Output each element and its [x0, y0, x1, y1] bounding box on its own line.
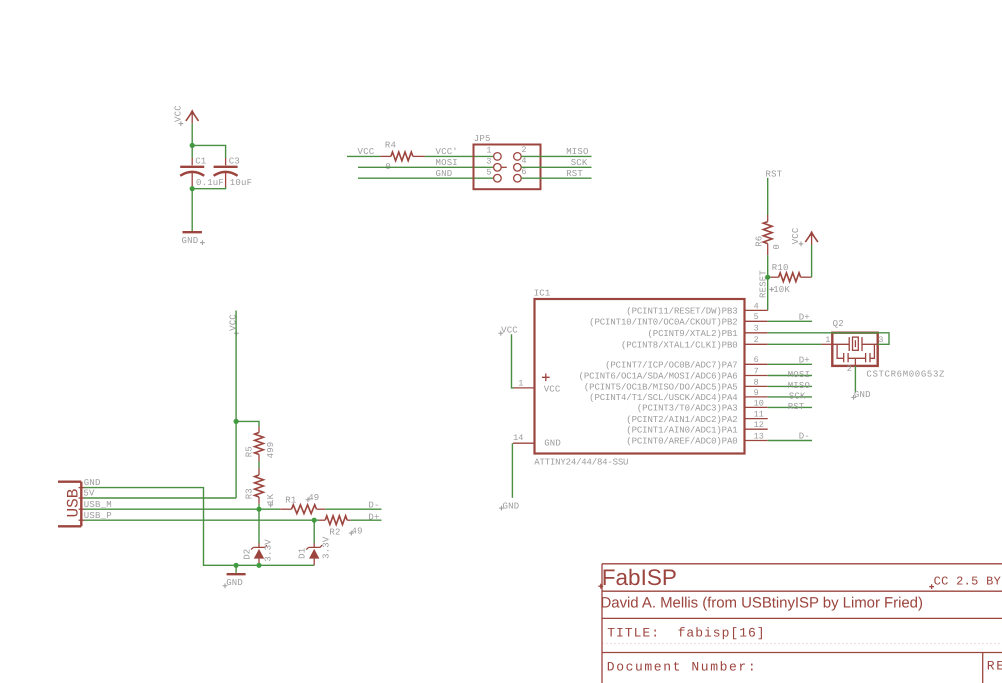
wire R6 to RESET junction: [767, 255, 769, 277]
JP5 pad circle pin1: [494, 153, 502, 161]
svg-text:5: 5: [754, 312, 759, 322]
svg-text:D1: D1: [297, 548, 307, 559]
wire C1 top lead (green part): [191, 145, 193, 158]
svg-text:1: 1: [486, 146, 491, 156]
wire SCK (pin9): [768, 396, 812, 398]
JP5 pin3 stub: [501, 166, 507, 168]
pin stub 3 (PB1): [745, 332, 768, 334]
pin stub 4 (PB3): [745, 309, 768, 311]
supply symbol VCC (at R10): [805, 231, 818, 245]
svg-text:SCK: SCK: [571, 158, 588, 168]
origin cross 1K: [268, 503, 273, 508]
wire MISO (pin8): [768, 385, 812, 387]
supply symbol VCC (top left): [186, 109, 199, 123]
wire R10 up to VCC arrow: [811, 244, 813, 277]
wire USB_P junction down to D1: [313, 520, 315, 543]
svg-text:0: 0: [772, 244, 782, 250]
svg-text:0.1uF: 0.1uF: [196, 178, 224, 188]
svg-text:TITLE: fabisp[16]: TITLE: fabisp[16]: [607, 626, 765, 641]
capacitor C1: [180, 158, 204, 187]
Q2 load capacitors to pin2: [837, 344, 874, 366]
pin stub 2 (PB0): [745, 343, 768, 345]
junction node ground rail / D2: [256, 563, 261, 568]
junction node RESET: [765, 275, 770, 280]
origin cross VCC (at R10): [799, 242, 804, 247]
svg-text:D-: D-: [368, 500, 379, 510]
svg-text:R4: R4: [385, 141, 396, 151]
wire GND stub to JP5 pin5: [358, 177, 494, 179]
svg-text:(PCINT1/AIN0/ADC1)PA1: (PCINT1/AIN0/ADC1)PA1: [626, 425, 737, 435]
svg-text:JP5: JP5: [474, 134, 491, 144]
wire VCC to junction: [191, 123, 193, 145]
svg-text:49: 49: [352, 527, 363, 537]
svg-text:MOSI: MOSI: [788, 370, 810, 380]
svg-text:ATTINY24/44/84-SSU: ATTINY24/44/84-SSU: [534, 457, 628, 467]
svg-text:GND: GND: [182, 236, 199, 246]
wire R4 to JP5 pin1: [425, 155, 494, 157]
wire USB GND to ground rail: [84, 488, 314, 566]
svg-text:R10: R10: [772, 263, 789, 273]
svg-text:GND: GND: [854, 390, 871, 400]
svg-text:RST: RST: [566, 169, 583, 179]
ground symbol (top left): [183, 231, 202, 233]
resistor R6: [763, 215, 772, 255]
svg-text:SCK: SCK: [789, 391, 806, 401]
ground symbol (USB rail): [227, 573, 246, 575]
Q2 pin1 stub: [822, 343, 833, 345]
svg-text:12: 12: [754, 420, 764, 430]
JP5 pad circle pin2: [514, 153, 522, 161]
svg-text:D2: D2: [243, 549, 253, 560]
junction node USB_P/D1: [312, 518, 317, 523]
svg-text:10K: 10K: [773, 285, 790, 295]
pin stub 12 (PA1): [745, 428, 768, 430]
svg-text:(PCINT6/OC1A/SDA/MOSI/ADC6)PA6: (PCINT6/OC1A/SDA/MOSI/ADC6)PA6: [579, 372, 738, 382]
Q2 crystal element: [832, 337, 877, 351]
svg-text:VCC: VCC: [544, 384, 561, 394]
svg-text:VCC: VCC: [501, 326, 518, 336]
svg-text:USB_P: USB_P: [84, 511, 112, 521]
svg-text:13: 13: [754, 431, 764, 441]
svg-text:RST: RST: [788, 402, 805, 412]
svg-text:2: 2: [521, 145, 526, 155]
wire top tie to C3 branch: [192, 145, 225, 158]
wire USB_M row: [84, 508, 280, 510]
origin cross CC 2.5 BY: [929, 584, 934, 589]
origin cross GND (Q2): [851, 395, 856, 400]
pin stub 14 (GND left): [513, 442, 535, 444]
svg-text:6: 6: [521, 167, 526, 177]
IC IC1 outline: [535, 299, 745, 454]
pin stub 10 (PA3): [745, 406, 768, 408]
svg-text:7: 7: [754, 366, 759, 376]
origin cross VCC (IC1 pin1): [498, 331, 503, 336]
origin cross for VCC (top left): [179, 121, 184, 126]
origin cross FabISP: [598, 584, 603, 589]
wire RESET down to IC1 pin4: [767, 277, 769, 310]
svg-text:5: 5: [486, 167, 491, 177]
svg-text:IC1: IC1: [534, 288, 551, 298]
svg-text:(PCINT5/OC1B/MISO/DO/ADC5)PA5: (PCINT5/OC1B/MISO/DO/ADC5)PA5: [584, 383, 738, 393]
svg-text:Q2: Q2: [833, 319, 844, 329]
pin stub 13 (PA0): [745, 440, 768, 442]
svg-text:David A. Mellis (from USBtinyI: David A. Mellis (from USBtinyISP by Limo…: [601, 595, 923, 612]
svg-text:GND: GND: [503, 502, 520, 512]
svg-text:1: 1: [825, 335, 830, 345]
svg-text:14: 14: [513, 433, 523, 443]
junction node C1/C3 bottom: [190, 186, 195, 191]
origin cross GND (IC1 pin14): [499, 506, 504, 511]
svg-text:4: 4: [521, 156, 526, 166]
junction node VCC/R5: [234, 419, 239, 424]
svg-text:1: 1: [518, 378, 523, 388]
svg-text:VCC: VCC: [174, 105, 184, 122]
svg-text:(PCINT10/INT0/OC0A/CKOUT)PB2: (PCINT10/INT0/OC0A/CKOUT)PB2: [589, 318, 737, 328]
svg-text:(PCINT2/AIN1/ADC2)PA2: (PCINT2/AIN1/ADC2)PA2: [626, 415, 737, 425]
wire USB_M junction down to D2: [258, 509, 260, 543]
svg-text:Document Number:: Document Number:: [607, 660, 757, 675]
origin cross 49 (R1): [306, 497, 311, 502]
wire RST (pin10): [768, 406, 812, 408]
connector USB outline: [58, 482, 81, 527]
origin cross IC1: [542, 374, 550, 382]
JP5 pad circle pin5: [494, 174, 502, 182]
wire MOSI (pin7): [768, 375, 812, 377]
svg-text:(PCINT4/T1/SCL/USCK/ADC4)PA4: (PCINT4/T1/SCL/USCK/ADC4)PA4: [589, 393, 737, 403]
wire USB 5V to VCC rail: [84, 497, 236, 499]
svg-text:5V: 5V: [83, 488, 95, 498]
wire USB_P row: [84, 519, 319, 521]
pin stub 11 (PA2): [745, 418, 768, 420]
svg-text:CC 2.5 BY: CC 2.5 BY: [934, 575, 1002, 589]
junction node VCC/C1/C3 top: [190, 143, 195, 148]
wire JP5 pin4 to SCK: [521, 166, 591, 168]
wire D- (pin13): [768, 440, 812, 442]
wire junction to R5 top: [236, 421, 259, 426]
svg-text:VCC: VCC: [791, 227, 801, 244]
USB pin stub GND: [79, 487, 85, 489]
svg-text:(PCINT0/AREF/ADC0)PA0: (PCINT0/AREF/ADC0)PA0: [626, 437, 737, 447]
wire VCC rail down to 5V row: [235, 311, 237, 499]
svg-text:49: 49: [308, 493, 319, 503]
svg-text:3.3V: 3.3V: [264, 539, 274, 562]
svg-text:R6: R6: [754, 236, 764, 247]
svg-text:D+: D+: [799, 312, 810, 322]
svg-text:(PCINT3/T0/ADC3)PA3: (PCINT3/T0/ADC3)PA3: [637, 404, 738, 414]
wire JP5 pin2 to MISO: [521, 155, 591, 157]
svg-text:3: 3: [754, 324, 759, 334]
svg-text:6: 6: [754, 355, 759, 365]
JP5 pad circle pin3: [494, 164, 502, 172]
wire pin3 to Q2 pin3: [768, 333, 889, 345]
svg-text:8: 8: [754, 377, 759, 387]
svg-text:CSTCR6M00G53Z: CSTCR6M00G53Z: [866, 369, 945, 379]
svg-text:3: 3: [486, 156, 491, 166]
wire R1 to D-: [325, 508, 381, 510]
pin stub 8 (PA5): [745, 385, 768, 387]
svg-text:VCC': VCC': [436, 147, 458, 157]
wire JP5 pin6 to RST: [521, 177, 591, 179]
wire R2 to D+: [351, 519, 382, 521]
svg-text:10uF: 10uF: [230, 178, 252, 188]
svg-text:C3: C3: [229, 157, 240, 167]
svg-text:(PCINT8/XTAL1/CLKI)PB0: (PCINT8/XTAL1/CLKI)PB0: [621, 341, 738, 351]
svg-text:(PCINT7/ICP/OC0B/ADC7)PA7: (PCINT7/ICP/OC0B/ADC7)PA7: [605, 361, 738, 371]
USB pin stub USB_M: [79, 508, 85, 510]
svg-text:R1: R1: [285, 496, 296, 506]
svg-text:GND: GND: [544, 439, 561, 449]
wire D+ (pin5): [768, 320, 812, 322]
svg-text:VCC: VCC: [358, 147, 375, 157]
USB pin stub 5V: [79, 497, 85, 499]
origin cross VCC (USB rail): [234, 331, 239, 336]
origin cross GND (top left): [200, 240, 205, 245]
wire MOSI stub to JP5 pin3: [358, 166, 494, 168]
svg-text:10: 10: [754, 398, 764, 408]
resistor R10: [768, 273, 812, 282]
svg-text:2: 2: [754, 335, 759, 345]
svg-text:GND: GND: [436, 169, 453, 179]
wire junction to GND: [191, 189, 193, 231]
svg-text:GND: GND: [84, 478, 101, 488]
svg-text:RE: RE: [987, 658, 1002, 673]
pin stub 9 (PA4): [745, 396, 768, 398]
wire VCC to R4: [347, 155, 380, 157]
wire bottom tie C3 to junction: [192, 187, 225, 189]
origin cross GND (USB rail): [223, 583, 228, 588]
connector JP5 outline: [474, 145, 541, 190]
pin stub 7 (PA6): [745, 375, 768, 377]
svg-text:D-: D-: [799, 432, 810, 442]
capacitor C3: [214, 158, 238, 187]
resistor R3: [255, 468, 264, 504]
svg-text:(PCINT11/RESET/DW)PB3: (PCINT11/RESET/DW)PB3: [626, 307, 737, 317]
origin cross 49 (R2): [349, 531, 354, 536]
pin stub 5 (PB2): [745, 320, 768, 322]
svg-text:FabISP: FabISP: [602, 565, 677, 590]
svg-text:R3: R3: [244, 488, 254, 499]
wire IC1 pin14 to GND label: [511, 443, 513, 498]
wire pin2 to Q2 pin1: [768, 343, 822, 345]
svg-text:4: 4: [754, 301, 759, 311]
svg-text:R2: R2: [329, 527, 340, 537]
wire R3 to USB_M junction: [258, 504, 260, 509]
pin stub 6 (PA7): [745, 363, 768, 365]
JP5 pad circle pin4: [514, 164, 522, 172]
svg-text:499: 499: [266, 442, 276, 459]
svg-text:MISO: MISO: [788, 381, 810, 391]
svg-text:GND: GND: [226, 578, 243, 588]
svg-text:RESET: RESET: [758, 270, 768, 298]
wire D+ (pin6): [768, 363, 812, 365]
junction node ground rail / GND symbol: [234, 563, 239, 568]
resistor R5: [255, 426, 264, 461]
wire Q2 pin2 to GND label: [854, 366, 856, 393]
resonator Q2 outline: [832, 333, 877, 366]
svg-text:3: 3: [878, 335, 883, 345]
svg-text:9: 9: [754, 388, 759, 398]
USB pin stub USB_P: [79, 519, 85, 521]
wire VCC to IC1 pin1: [512, 334, 514, 388]
JP5 pad circle pin6: [514, 174, 522, 182]
svg-text:3.3V: 3.3V: [321, 536, 331, 559]
svg-text:D+: D+: [368, 512, 379, 522]
wire R5 to R3: [258, 462, 260, 469]
svg-text:USB: USB: [65, 489, 83, 518]
origin cross 10K: [769, 287, 774, 292]
svg-text:MOSI: MOSI: [436, 158, 458, 168]
svg-text:2: 2: [847, 364, 852, 374]
svg-text:(PCINT9/XTAL2)PB1: (PCINT9/XTAL2)PB1: [647, 329, 737, 339]
svg-text:D+: D+: [799, 355, 810, 365]
resistor R2: [319, 516, 351, 525]
svg-text:R5: R5: [244, 446, 254, 457]
svg-text:11: 11: [754, 410, 764, 420]
pin stub 1 (VCC left): [513, 387, 535, 389]
resistor R1: [280, 505, 325, 514]
wire ground rail stub to GND symbol: [235, 565, 237, 573]
title block frame: [602, 564, 1002, 683]
svg-text:C1: C1: [195, 157, 206, 167]
zener diode D1: [306, 543, 322, 565]
resistor R4: [380, 152, 425, 161]
zener diode D2: [251, 543, 267, 565]
svg-text:MISO: MISO: [566, 147, 588, 157]
wire RST down to R6: [767, 178, 769, 215]
junction node USB_M/R3/D2: [256, 507, 261, 512]
